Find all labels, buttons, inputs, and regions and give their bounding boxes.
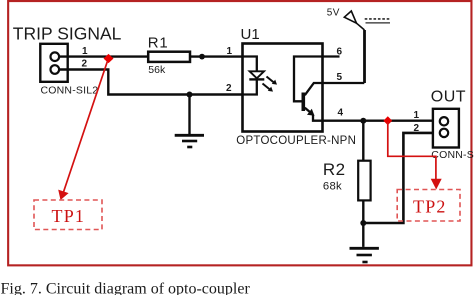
pin 1 label of J2 — [414, 110, 420, 121]
wire 5V to U1 pin 5 — [363, 30, 366, 83]
svg-text:R1: R1 — [148, 34, 169, 51]
phototransistor collector wire (pin 5) — [305, 83, 365, 95]
wire R1 to U1 pin1 — [189, 55, 243, 57]
pin 2 label of J2 — [414, 123, 420, 134]
wire OUT pin2 to ground net — [363, 133, 440, 223]
probe diamond node TP2 — [383, 116, 392, 125]
svg-text:56k: 56k — [148, 64, 166, 76]
junction dot after R1 — [199, 54, 205, 60]
svg-text:OUT: OUT — [431, 89, 466, 106]
LED of U1 triangle — [250, 71, 264, 78]
LED of U1 cathode bar and wire — [243, 79, 265, 94]
pin 1 label of J1 — [82, 46, 88, 57]
junction dot on pin4 wire — [360, 118, 366, 124]
label OUT — [431, 89, 466, 106]
svg-text:TRIP SIGNAL: TRIP SIGNAL — [13, 24, 122, 44]
optocoupler U1 body — [243, 44, 323, 132]
svg-text:R2: R2 — [323, 160, 346, 179]
label CONN-SIL2 of J2 — [431, 149, 474, 161]
pin 2 label of J1 — [82, 58, 88, 69]
svg-text:U1: U1 — [241, 26, 260, 43]
test point TP1 text — [52, 206, 86, 226]
wire R2 to ground — [362, 200, 364, 223]
arrow to TP1 — [58, 61, 107, 200]
svg-text:2: 2 — [414, 123, 420, 134]
resistor R1 label — [148, 34, 169, 51]
svg-text:1: 1 — [82, 46, 88, 57]
wire pin4 to R2 — [362, 121, 364, 161]
label TRIP SIGNAL — [13, 24, 122, 44]
connector J1 CONN-SIL2 body — [40, 44, 67, 82]
pin 1 label of U1 — [227, 46, 233, 57]
red wire to TP2 arrow — [388, 122, 442, 190]
wire U1 pin4 to OUT pin1 — [323, 119, 433, 121]
test point TP2 box — [397, 190, 460, 222]
test point TP1 box — [34, 200, 102, 230]
svg-text:OPTOCOUPLER-NPN: OPTOCOUPLER-NPN — [236, 135, 356, 147]
value 68k of R2 — [323, 180, 342, 192]
label CONN-SIL2 — [41, 85, 99, 97]
connector J2 OUT body — [433, 109, 459, 148]
light emission arrow upper — [267, 77, 278, 85]
svg-text:68k: 68k — [323, 180, 342, 192]
resistor R1 body — [148, 52, 190, 62]
resistor R2 body — [358, 161, 370, 201]
label OPTOCOUPLER-NPN — [236, 135, 356, 147]
svg-text:CONN-SIL2: CONN-SIL2 — [41, 85, 99, 97]
svg-text:TP1: TP1 — [52, 206, 86, 226]
svg-text:1: 1 — [227, 46, 233, 57]
svg-text:5: 5 — [337, 72, 343, 83]
ground (right) — [350, 223, 379, 262]
wire J1 pin1 to R1 — [59, 55, 149, 57]
svg-text:2: 2 — [226, 83, 232, 94]
phototransistor base wire to pin 6 — [294, 57, 340, 102]
svg-text:6: 6 — [337, 46, 343, 57]
svg-text:1: 1 — [414, 110, 420, 121]
optocoupler U1 label — [241, 26, 260, 43]
pin 4 label of U1 — [338, 107, 344, 118]
svg-text:4: 4 — [338, 107, 344, 118]
pin 5 label of U1 — [337, 72, 343, 83]
ground (left) — [175, 95, 204, 148]
dashed marker near 5V — [365, 19, 390, 23]
resistor R2 label — [323, 160, 346, 179]
svg-text:5V: 5V — [327, 7, 340, 18]
svg-text:Fig. 7. Circuit diagram of opt: Fig. 7. Circuit diagram of opto-coupler — [1, 281, 251, 295]
phototransistor base bar — [301, 93, 305, 112]
light emission arrow lower — [263, 84, 274, 92]
power 5V symbol — [344, 11, 364, 30]
probe diamond node TP1 — [104, 54, 114, 63]
junction dot on ground net — [187, 92, 193, 98]
test point TP2 text — [413, 196, 447, 216]
value 56k of R1 — [148, 64, 166, 76]
LED of U1 anode wire — [243, 57, 257, 72]
figure caption — [1, 281, 251, 295]
junction dot below R2 — [360, 220, 366, 226]
phototransistor emitter with arrow — [305, 108, 323, 121]
pin 2 label of U1 — [226, 83, 232, 94]
pin 6 label of U1 — [337, 46, 343, 57]
svg-text:2: 2 — [82, 58, 88, 69]
wire J1 pin2 to U1 pin2 — [59, 70, 243, 95]
power 5V label — [327, 7, 340, 18]
svg-text:CONN-SIL2: CONN-SIL2 — [431, 149, 474, 161]
svg-text:TP2: TP2 — [413, 196, 447, 216]
